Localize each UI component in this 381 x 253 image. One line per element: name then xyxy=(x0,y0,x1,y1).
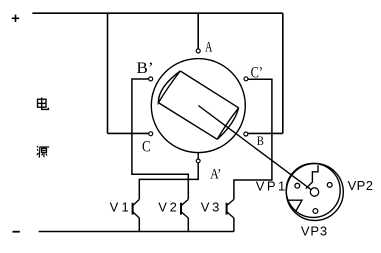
node A' terminal xyxy=(196,159,200,163)
node C terminal xyxy=(149,132,153,136)
motor M stator circle xyxy=(151,59,245,153)
node B' terminal xyxy=(149,77,153,81)
position sensor outer circle xyxy=(286,164,343,221)
transistor V3 xyxy=(227,199,234,231)
sensor rotor cam lower edge xyxy=(288,200,302,211)
transistor V1 xyxy=(133,199,140,231)
motor rotor left end cap xyxy=(158,71,180,103)
label 电 (power) xyxy=(38,98,49,110)
svg-text:V1: V1 xyxy=(110,200,132,215)
wire: left rail down from + xyxy=(107,13,109,133)
svg-text:B’: B’ xyxy=(136,60,153,77)
sensor rotor cam upper edge xyxy=(306,165,318,188)
motor rotor top edge xyxy=(180,71,238,108)
wire: feed to node C xyxy=(108,132,149,134)
label 源 (source) xyxy=(37,146,50,157)
svg-text:C: C xyxy=(142,138,151,155)
svg-text:B: B xyxy=(257,133,264,148)
plus supply terminal label xyxy=(12,15,19,22)
wire: A' to V1 collector xyxy=(139,163,198,199)
svg-text:VP2: VP2 xyxy=(348,178,374,193)
wire: top positive rail xyxy=(32,12,282,14)
svg-text:VP1: VP1 xyxy=(256,178,288,193)
wire: right rail down from + xyxy=(282,13,284,133)
svg-text:A’: A’ xyxy=(210,166,221,182)
sensor element dot near VP3 xyxy=(313,209,318,214)
svg-text:V2: V2 xyxy=(158,200,179,215)
node C' terminal xyxy=(244,77,248,81)
svg-text:V3: V3 xyxy=(201,200,222,215)
wire: B' to V2 collector xyxy=(132,79,188,199)
svg-text:A: A xyxy=(205,40,213,56)
sensor element dot near VP2 xyxy=(327,183,332,188)
position sensor inner circle xyxy=(286,163,340,217)
minus supply terminal label xyxy=(13,231,20,233)
transistor V2 xyxy=(181,199,188,231)
wire: feed to node A xyxy=(197,13,199,49)
wire: bottom negative rail xyxy=(39,231,234,233)
shaft line from motor center to sensor hub xyxy=(198,106,311,190)
motor rotor right end cap xyxy=(217,108,238,140)
motor shaft stub to A' xyxy=(197,153,199,159)
wire: feed to node B xyxy=(248,132,283,134)
node A terminal xyxy=(196,49,200,53)
wire: C' to V3 collector xyxy=(234,79,272,199)
sensor shaft hub xyxy=(310,188,318,196)
node B terminal xyxy=(244,132,248,136)
sensor element dot near VP1 xyxy=(295,183,300,188)
motor rotor bottom edge xyxy=(158,103,217,140)
svg-text:VP3: VP3 xyxy=(301,223,328,238)
